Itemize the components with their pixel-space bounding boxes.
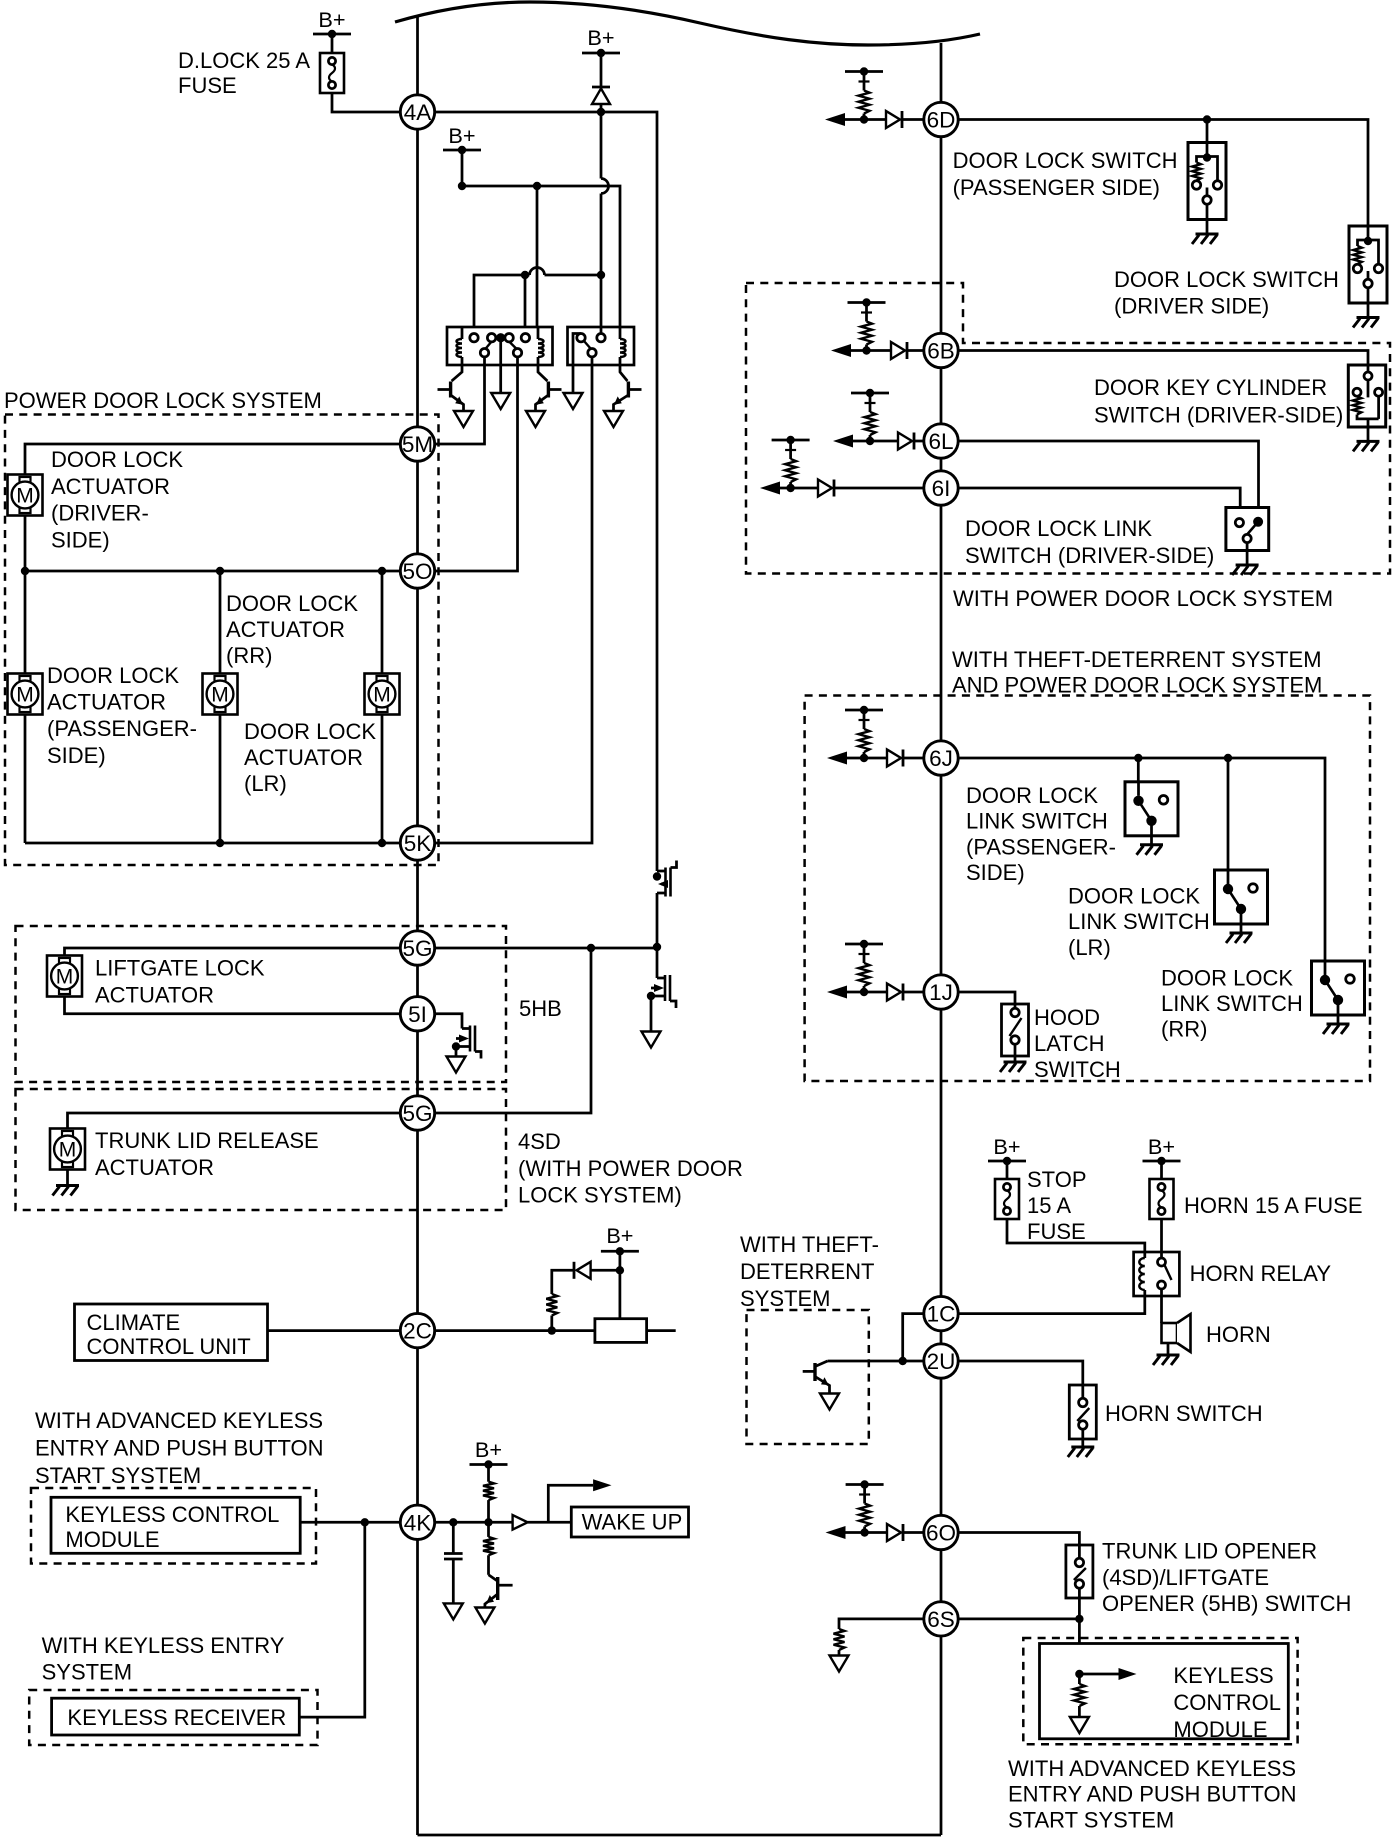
svg-text:WITH ADVANCED KEYLESS: WITH ADVANCED KEYLESS — [35, 1408, 323, 1433]
inline component (relay coil box) — [595, 1319, 676, 1343]
wire 2U to horn switch — [941, 1361, 1083, 1385]
wire driver actuator to 5O rail — [24, 516, 27, 572]
svg-text:ACTUATOR: ACTUATOR — [226, 617, 345, 642]
wire to LR actuator — [381, 571, 384, 674]
motor M (door lock actuator RR) — [203, 591, 359, 715]
label 4SD — [518, 1129, 743, 1208]
motor M (liftgate lock actuator) — [47, 956, 265, 1008]
svg-text:6D: 6D — [927, 108, 956, 133]
fuse HORN 15 A — [1150, 1179, 1363, 1219]
B+ supply with diode (relay contact feed) — [582, 25, 620, 112]
dashed box keyless receiver — [29, 1690, 317, 1745]
wire right bus (connector column) — [940, 43, 943, 1835]
wire 1C to horn relay — [941, 1296, 1145, 1314]
dashed box TRUNK LID RELEASE ACTUATOR — [16, 1089, 507, 1210]
transistor Q3 (unlock driver) — [614, 365, 642, 411]
svg-text:DOOR LOCK: DOOR LOCK — [1161, 965, 1293, 990]
relay HORN RELAY — [1134, 1252, 1332, 1296]
wire LR actuator to 5K rail — [381, 715, 384, 844]
label WITH KEYLESS ENTRY SYSTEM — [42, 1633, 285, 1685]
svg-text:WAKE UP: WAKE UP — [582, 1510, 683, 1535]
svg-text:15 A: 15 A — [1027, 1193, 1071, 1218]
wire fuse to node 4A — [332, 93, 418, 112]
motor M (door lock actuator driver-side) — [8, 447, 184, 552]
ground (trunk actuator) — [53, 1170, 80, 1196]
connector arrow (relay 1 common) — [491, 393, 510, 409]
transistor Q2 (lock driver 2) — [536, 365, 562, 411]
svg-text:DOOR LOCK: DOOR LOCK — [1068, 883, 1200, 908]
wire relay 1 common to connector arrow — [499, 365, 502, 393]
wire relay 1 contact feed (hop over) — [474, 268, 601, 338]
wire RR actuator to 5K rail — [219, 715, 222, 844]
label WITH THEFT-DETERRENT SYSTEM AND POWER DOOR LOCK SYSTEM — [952, 647, 1322, 698]
wire 5M to driver actuator — [25, 444, 418, 475]
svg-text:KEYLESS: KEYLESS — [1173, 1663, 1273, 1688]
svg-text:ACTUATOR: ACTUATOR — [244, 745, 363, 770]
svg-text:LINK SWITCH: LINK SWITCH — [1161, 991, 1303, 1016]
wire 5G trunk junction riser — [418, 948, 592, 1113]
svg-text:4SD: 4SD — [518, 1129, 561, 1154]
resistor (keyless module) — [1074, 1674, 1085, 1717]
connector arrow (relay 2 contact) — [564, 393, 583, 409]
dashed box WITH POWER DOOR LOCK SYSTEM — [746, 283, 1390, 611]
wire 1J to hood latch switch — [941, 992, 1015, 1004]
node 6J — [924, 741, 958, 775]
wire relay 1 to node 5M — [418, 365, 485, 444]
B+ supply (relay coil feed) — [443, 123, 481, 186]
box WAKE UP — [571, 1507, 688, 1537]
label WITH ADVANCED KEYLESS ENTRY (left) — [35, 1408, 324, 1488]
svg-text:B+: B+ — [993, 1134, 1020, 1159]
switch DOOR LOCK SWITCH (driver side) — [1114, 226, 1387, 328]
svg-text:M: M — [211, 684, 229, 707]
svg-text:START SYSTEM: START SYSTEM — [1008, 1807, 1174, 1832]
svg-text:ACTUATOR: ACTUATOR — [95, 1155, 214, 1180]
diode (6O) — [887, 1524, 941, 1541]
svg-text:5O: 5O — [402, 559, 432, 584]
svg-text:(DRIVER-: (DRIVER- — [51, 501, 149, 526]
wire HORN fuse to horn relay — [1160, 1219, 1163, 1252]
node 1C — [924, 1296, 958, 1330]
svg-text:HOOD: HOOD — [1034, 1005, 1100, 1030]
fuse STOP 15 A — [995, 1167, 1087, 1244]
speaker HORN — [1162, 1296, 1271, 1355]
wire to relay 1 right coil — [536, 186, 539, 327]
wire relay 2 to node 5K — [418, 365, 593, 843]
node 6S — [924, 1602, 958, 1636]
svg-text:6J: 6J — [929, 746, 953, 771]
node 2C — [400, 1313, 434, 1347]
signal arrow (6J output) — [827, 752, 887, 765]
svg-text:HORN SWITCH: HORN SWITCH — [1105, 1401, 1263, 1426]
resistor (6S) — [834, 1629, 845, 1656]
svg-text:KEYLESS RECEIVER: KEYLESS RECEIVER — [67, 1705, 286, 1730]
svg-text:LOCK SYSTEM): LOCK SYSTEM) — [518, 1183, 682, 1208]
svg-text:1J: 1J — [929, 980, 953, 1005]
svg-text:KEYLESS CONTROL: KEYLESS CONTROL — [65, 1502, 279, 1527]
svg-text:(LR): (LR) — [1068, 935, 1111, 960]
svg-text:TRUNK LID RELEASE: TRUNK LID RELEASE — [95, 1128, 319, 1153]
node 5G (trunk) — [400, 1096, 434, 1130]
svg-text:2C: 2C — [403, 1319, 432, 1344]
svg-text:CONTROL UNIT: CONTROL UNIT — [87, 1334, 251, 1359]
svg-text:DOOR KEY CYLINDER: DOOR KEY CYLINDER — [1094, 375, 1327, 400]
svg-text:HORN: HORN — [1206, 1322, 1271, 1347]
signal arrow (6L output) — [833, 435, 898, 448]
svg-text:(RR): (RR) — [1161, 1017, 1207, 1042]
wire passenger actuator to 5K rail — [24, 715, 27, 844]
wire 5G to trunk actuator — [68, 1113, 418, 1129]
wire trunk switch to 6S junction — [1075, 1598, 1083, 1674]
relay K1 (door lock relay, double) — [447, 327, 553, 365]
svg-text:6I: 6I — [932, 476, 951, 501]
svg-text:SWITCH (DRIVER-SIDE): SWITCH (DRIVER-SIDE) — [1094, 403, 1343, 428]
diode (6L) — [898, 433, 941, 450]
box KEYLESS CONTROL MODULE (left) — [51, 1497, 300, 1553]
svg-text:AND POWER DOOR LOCK SYSTEM: AND POWER DOOR LOCK SYSTEM — [952, 673, 1322, 698]
node 6O — [924, 1515, 958, 1549]
switch TRUNK LID OPENER / LIFTGATE OPENER — [1066, 1539, 1351, 1617]
signal arrow (1J output) — [827, 986, 887, 999]
node 5I — [400, 997, 434, 1031]
wire climate control to 2C — [268, 1329, 418, 1332]
B+ supply (4K pull-up) — [470, 1437, 508, 1482]
wire relay 2 contact to connector arrow — [572, 365, 575, 393]
pull-up resistor (6D) — [845, 67, 883, 123]
wire 6J to link switches — [941, 754, 1325, 961]
svg-text:B+: B+ — [587, 25, 614, 50]
transistor Q7 (4K input) — [485, 1575, 513, 1608]
node 6B — [924, 333, 958, 367]
connector arrow (Q7 emitter) — [475, 1608, 494, 1624]
dashed box theft-deterrent system — [747, 1310, 869, 1444]
connector arrow (keyless module resistor) — [1070, 1717, 1089, 1733]
svg-text:1C: 1C — [927, 1302, 956, 1327]
wire 5K rail — [25, 839, 418, 847]
pull-up resistor (6B) — [848, 298, 886, 354]
svg-text:4K: 4K — [404, 1510, 432, 1535]
svg-text:SWITCH: SWITCH — [1034, 1057, 1121, 1082]
B+ supply (HORN fuse) — [1143, 1134, 1181, 1179]
svg-text:CLIMATE: CLIMATE — [87, 1310, 181, 1335]
node 6I — [924, 471, 958, 505]
wire B+ feed to relay coils — [458, 182, 620, 327]
wire keyless module to 4K — [300, 1518, 417, 1526]
svg-text:2U: 2U — [927, 1349, 956, 1374]
wire 6D to door lock switches — [941, 115, 1368, 226]
svg-text:ACTUATOR: ACTUATOR — [51, 474, 170, 499]
diode (1J) — [887, 984, 941, 1001]
svg-text:HORN 15 A FUSE: HORN 15 A FUSE — [1184, 1193, 1363, 1218]
pull-up resistor (6J) — [845, 706, 883, 762]
wire 2U to theft transistor — [828, 1360, 942, 1363]
svg-text:DOOR LOCK: DOOR LOCK — [51, 447, 183, 472]
dashed box LIFTGATE LOCK ACTUATOR — [16, 926, 507, 1082]
svg-text:CONTROL: CONTROL — [1173, 1690, 1281, 1715]
svg-text:(PASSENGER-: (PASSENGER- — [966, 834, 1116, 859]
svg-text:B+: B+ — [606, 1223, 633, 1248]
svg-text:B+: B+ — [448, 123, 475, 148]
pull-up resistor (6O) — [846, 1480, 884, 1536]
svg-text:DOOR LOCK: DOOR LOCK — [244, 719, 376, 744]
svg-text:OPENER (5HB) SWITCH: OPENER (5HB) SWITCH — [1102, 1591, 1351, 1616]
ground (horn) — [1153, 1355, 1180, 1365]
wire 2C to defogger relay — [418, 1326, 595, 1334]
svg-text:5G: 5G — [402, 1101, 432, 1126]
dashed box keyless control module (left) — [31, 1488, 316, 1564]
wire 6S to trunk switch junction — [941, 1618, 1079, 1621]
fuse D.LOCK 25 A — [178, 48, 344, 98]
svg-text:DETERRENT: DETERRENT — [740, 1259, 874, 1284]
svg-text:5I: 5I — [408, 1002, 427, 1027]
svg-text:5HB: 5HB — [519, 996, 562, 1021]
svg-text:DOOR LOCK: DOOR LOCK — [47, 663, 179, 688]
svg-text:LIFTGATE LOCK: LIFTGATE LOCK — [95, 956, 265, 981]
svg-text:LINK SWITCH: LINK SWITCH — [966, 809, 1108, 834]
svg-text:5M: 5M — [402, 432, 433, 457]
wire to RR actuator — [219, 571, 222, 674]
node 5K — [400, 826, 434, 860]
svg-text:M: M — [56, 966, 74, 989]
node 1J — [924, 975, 958, 1009]
switch DOOR LOCK LINK SWITCH (passenger-side) — [966, 782, 1178, 885]
svg-text:ACTUATOR: ACTUATOR — [95, 983, 214, 1008]
svg-text:6B: 6B — [927, 339, 955, 364]
wire break wave (harness continuation) — [395, 2, 980, 45]
svg-text:START SYSTEM: START SYSTEM — [35, 1463, 201, 1488]
svg-text:ACTUATOR: ACTUATOR — [47, 690, 166, 715]
svg-text:DOOR LOCK SWITCH: DOOR LOCK SWITCH — [953, 148, 1178, 173]
signal arrow (6D output) — [825, 113, 886, 126]
wire liftgate actuator to 5I — [65, 997, 418, 1014]
dashed box keyless control module (right) — [1023, 1638, 1297, 1744]
svg-text:5K: 5K — [404, 831, 432, 856]
svg-text:D.LOCK 25 A: D.LOCK 25 A — [178, 48, 310, 73]
svg-text:DOOR LOCK: DOOR LOCK — [226, 591, 358, 616]
signal arrow (6B output) — [831, 344, 891, 357]
node 2U — [924, 1344, 958, 1378]
wire left bus (connector column) — [416, 16, 419, 1835]
box KEYLESS RECEIVER — [52, 1698, 300, 1735]
connector arrow (Q3 emitter) — [604, 411, 623, 427]
switch DOOR LOCK LINK SWITCH (LR) — [1068, 870, 1268, 960]
svg-text:6L: 6L — [928, 429, 953, 454]
B+ supply (D.LOCK fuse) — [313, 7, 351, 53]
signal arrow (6I output) — [760, 482, 818, 495]
switch DOOR LOCK LINK SWITCH (RR) — [1161, 961, 1365, 1042]
pull-up resistor (6L) — [851, 389, 889, 445]
svg-text:ENTRY AND PUSH BUTTON: ENTRY AND PUSH BUTTON — [35, 1435, 324, 1460]
svg-text:HORN RELAY: HORN RELAY — [1190, 1261, 1332, 1286]
signal arrow (keyless module input) — [1075, 1668, 1136, 1680]
svg-text:MODULE: MODULE — [65, 1527, 159, 1552]
node 4A — [400, 95, 434, 129]
signal arrow (wake up) — [548, 1479, 611, 1522]
node 6L — [924, 424, 958, 458]
transistor Q8 (theft-deterrent horn) — [803, 1361, 830, 1394]
motor M (door lock actuator LR) — [244, 674, 400, 797]
svg-text:FUSE: FUSE — [178, 73, 237, 98]
svg-text:(PASSENGER-: (PASSENGER- — [47, 716, 197, 741]
resistor (2C pull-up) — [546, 1270, 574, 1330]
svg-text:WITH KEYLESS ENTRY: WITH KEYLESS ENTRY — [42, 1633, 285, 1658]
svg-text:M: M — [373, 684, 391, 707]
wire 4A to MOSFET chain (x657 drop) — [418, 108, 658, 871]
svg-text:WITH POWER DOOR LOCK SYSTEM: WITH POWER DOOR LOCK SYSTEM — [953, 586, 1333, 611]
buffer gate (wake-up) — [513, 1515, 572, 1530]
switch DOOR LOCK LINK SWITCH (driver-side) — [965, 508, 1269, 576]
svg-text:SIDE): SIDE) — [51, 527, 110, 552]
MOSFET Q4 (liftgate driver high) — [653, 861, 677, 948]
svg-text:LINK SWITCH: LINK SWITCH — [1068, 909, 1210, 934]
connector arrow (Q6 source) — [447, 1057, 466, 1073]
MOSFET Q5 (liftgate driver low) — [647, 943, 676, 1032]
motor M (trunk lid release actuator) — [50, 1128, 319, 1180]
svg-text:MODULE: MODULE — [1173, 1717, 1267, 1742]
svg-text:(RR): (RR) — [226, 643, 272, 668]
svg-text:LATCH: LATCH — [1034, 1031, 1105, 1056]
wire 6I to link switch — [941, 488, 1240, 519]
svg-text:SIDE): SIDE) — [47, 743, 106, 768]
svg-text:(PASSENGER SIDE): (PASSENGER SIDE) — [953, 175, 1160, 200]
svg-text:(WITH POWER DOOR: (WITH POWER DOOR — [518, 1156, 743, 1181]
wire 1C branch to 2U line — [899, 1314, 927, 1366]
svg-text:(4SD)/LIFTGATE: (4SD)/LIFTGATE — [1102, 1565, 1269, 1590]
label WITH THEFT-DETERRENT SYSTEM — [740, 1232, 879, 1311]
svg-text:B+: B+ — [318, 7, 345, 32]
switch HORN SWITCH — [1068, 1385, 1263, 1457]
box KEYLESS CONTROL MODULE (right) — [1040, 1644, 1289, 1743]
svg-text:SIDE): SIDE) — [966, 860, 1025, 885]
wire 6O to trunk lid opener switch — [941, 1533, 1079, 1546]
svg-text:STOP: STOP — [1027, 1167, 1087, 1192]
connector arrow (Q8 emitter) — [820, 1394, 839, 1410]
node 5G (liftgate) — [400, 931, 434, 965]
connector arrow (capacitor ground) — [444, 1603, 463, 1619]
svg-text:M: M — [16, 485, 34, 508]
svg-text:WITH THEFT-: WITH THEFT- — [740, 1232, 879, 1257]
diode (6J) — [887, 750, 941, 767]
motor M (door lock actuator passenger-side) — [8, 663, 197, 768]
svg-text:DOOR LOCK LINK: DOOR LOCK LINK — [965, 516, 1152, 541]
resistor (4K divider) — [483, 1522, 494, 1575]
node 5M — [400, 427, 434, 461]
wire 6S to resistor — [839, 1619, 941, 1629]
wire relay 1 to node 5O — [418, 365, 518, 571]
svg-text:B+: B+ — [475, 1437, 502, 1462]
connector arrow (Q2 emitter) — [526, 411, 545, 427]
wire diode feed to relay 2 contact (hop over) — [597, 112, 609, 333]
dashed box theft-deterrent and power door lock — [805, 696, 1370, 1082]
transistor Q1 (lock driver) — [438, 365, 464, 411]
relay K2 (door unlock relay) — [568, 327, 635, 365]
svg-text:(DRIVER SIDE): (DRIVER SIDE) — [1114, 294, 1269, 319]
svg-text:POWER DOOR LOCK SYSTEM: POWER DOOR LOCK SYSTEM — [4, 388, 322, 413]
connector arrow (Q5 source) — [642, 1032, 661, 1048]
wire 4K to buffer — [418, 1518, 513, 1526]
diode (6B) — [891, 342, 941, 359]
B+ supply (STOP fuse) — [988, 1134, 1026, 1179]
label WITH ADVANCED KEYLESS ENTRY (right) — [1008, 1756, 1297, 1832]
wire STOP fuse to horn relay coil — [1007, 1219, 1145, 1252]
wire 5O rail — [21, 567, 418, 575]
B+ supply (2C) — [601, 1223, 639, 1319]
node 6D — [924, 102, 958, 136]
diode (6I) — [818, 480, 941, 497]
switch DOOR KEY CYLINDER SWITCH (driver-side) — [1094, 365, 1386, 451]
pull-up resistor (6I) — [772, 436, 810, 492]
svg-text:4A: 4A — [404, 100, 432, 125]
svg-text:(LR): (LR) — [244, 771, 287, 796]
diode (2C clamp) — [574, 1262, 624, 1279]
diode (6D) — [886, 111, 941, 128]
wire to passenger actuator — [24, 571, 27, 674]
node 4K — [400, 1505, 434, 1539]
svg-text:WITH ADVANCED KEYLESS: WITH ADVANCED KEYLESS — [1008, 1756, 1296, 1781]
node 5O — [400, 554, 434, 588]
svg-text:SYSTEM: SYSTEM — [740, 1286, 830, 1311]
wire 5G rail to MOSFET chain — [418, 944, 658, 952]
wire 6L to link switch — [941, 441, 1259, 517]
MOSFET Q6 (liftgate lock) — [452, 1026, 481, 1059]
capacitor (4K filter) — [444, 1522, 463, 1603]
wire bottom rail — [418, 1834, 942, 1837]
resistor (4K pull-up) — [483, 1482, 494, 1523]
switch HOOD LATCH SWITCH — [1000, 1004, 1121, 1082]
svg-text:FUSE: FUSE — [1027, 1219, 1086, 1244]
wire 5I to MOSFET Q6 — [418, 1014, 463, 1029]
switch DOOR LOCK SWITCH (passenger side) — [953, 143, 1226, 245]
wire 5G to liftgate actuator — [65, 948, 418, 956]
pull-up resistor (1J) — [845, 940, 883, 996]
connector arrow (6S resistor) — [830, 1656, 849, 1672]
wire 6B to door key cylinder switch — [941, 351, 1368, 366]
svg-text:ENTRY AND PUSH BUTTON: ENTRY AND PUSH BUTTON — [1008, 1782, 1297, 1807]
svg-text:SWITCH (DRIVER-SIDE): SWITCH (DRIVER-SIDE) — [965, 543, 1214, 568]
svg-text:TRUNK LID OPENER: TRUNK LID OPENER — [1102, 1539, 1317, 1564]
svg-text:5G: 5G — [402, 936, 432, 961]
svg-text:6O: 6O — [926, 1521, 956, 1546]
svg-text:M: M — [16, 684, 34, 707]
dashed box POWER DOOR LOCK SYSTEM — [4, 388, 439, 865]
signal arrow (6O output) — [826, 1526, 888, 1539]
svg-text:M: M — [59, 1139, 77, 1162]
label 5HB — [519, 996, 562, 1021]
svg-text:SYSTEM: SYSTEM — [42, 1660, 132, 1685]
svg-text:DOOR LOCK SWITCH: DOOR LOCK SWITCH — [1114, 267, 1339, 292]
connector arrow (Q1 emitter) — [454, 411, 473, 427]
box CLIMATE CONTROL UNIT — [75, 1304, 268, 1361]
wire keyless receiver to 4K junction — [299, 1522, 365, 1717]
svg-text:6S: 6S — [927, 1607, 955, 1632]
svg-text:B+: B+ — [1148, 1134, 1175, 1159]
svg-text:DOOR LOCK: DOOR LOCK — [966, 783, 1098, 808]
svg-text:WITH THEFT-DETERRENT SYSTEM: WITH THEFT-DETERRENT SYSTEM — [952, 647, 1322, 672]
